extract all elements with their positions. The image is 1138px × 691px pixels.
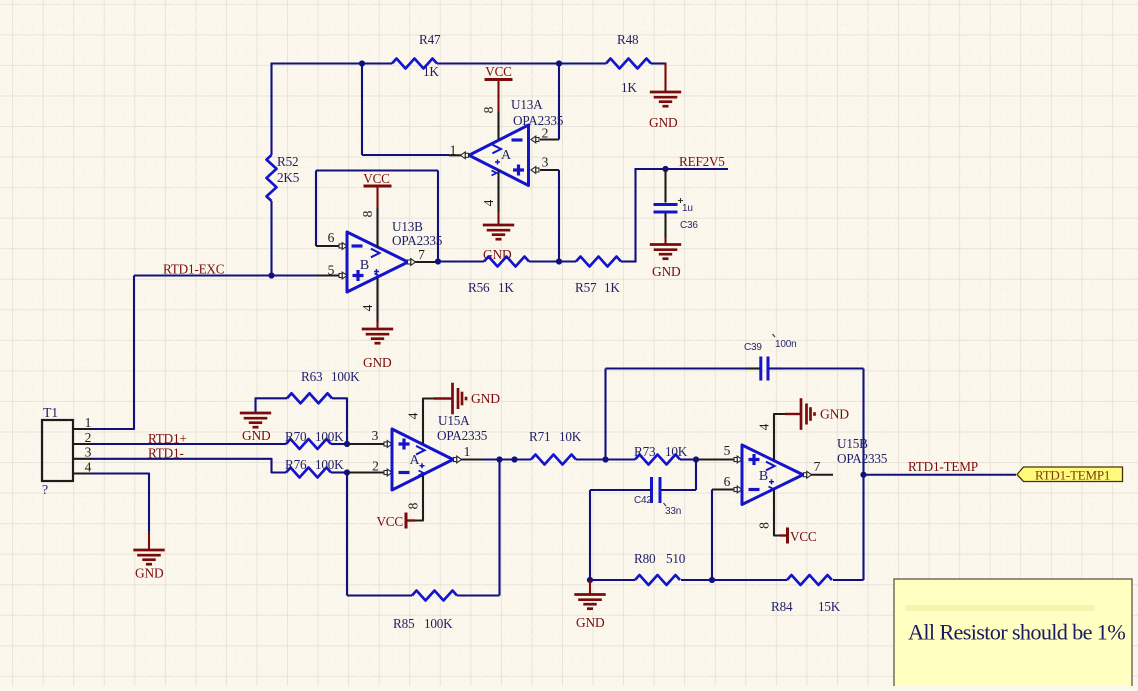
U13A inverting input pin 2	[540, 138, 559, 140]
wire U13B feedback left drop	[315, 171, 317, 247]
svg-text:4: 4	[360, 304, 375, 311]
svg-text:R71: R71	[529, 429, 550, 444]
svg-text:VCC: VCC	[485, 64, 512, 79]
wire C42 right riser	[695, 460, 697, 491]
svg-text:1K: 1K	[423, 64, 439, 79]
svg-text:3: 3	[85, 445, 92, 460]
wire R63 right to pin3 node	[332, 398, 347, 444]
U13B internal chevron	[371, 249, 380, 258]
svg-text:GND: GND	[363, 355, 392, 370]
wire R71 to C39 riser	[576, 458, 635, 460]
junction R76/R85 node	[344, 469, 350, 475]
U15B pin 4 to ground	[774, 414, 786, 460]
svg-text:2: 2	[85, 430, 92, 445]
U15A minus mark	[399, 471, 410, 474]
svg-text:1K: 1K	[621, 80, 637, 95]
wire C39 left riser	[604, 369, 606, 460]
wire R84 to right rail	[833, 579, 864, 581]
svg-text:15K: 15K	[818, 599, 841, 614]
junction C42/R80/ground	[587, 577, 593, 583]
U13A minus mark	[512, 138, 523, 141]
svg-text:33n: 33n	[665, 506, 681, 517]
U15B minus mark	[749, 488, 760, 491]
T1 pin 3	[73, 458, 91, 460]
U15B pin 6	[712, 488, 735, 490]
svg-text:GND: GND	[649, 115, 678, 130]
svg-text:B: B	[360, 258, 369, 273]
junction U13B output node	[435, 258, 441, 264]
svg-text:4: 4	[85, 460, 92, 475]
wire REF2V5 horizontal	[635, 168, 729, 170]
svg-text:A: A	[409, 453, 420, 468]
wire U13B feedback right drop	[437, 171, 439, 262]
ground GND mid-bottom	[574, 593, 605, 596]
wire to R80	[590, 579, 635, 581]
svg-text:All Resistor should be 1%: All Resistor should be 1%	[908, 620, 1125, 645]
svg-text:5: 5	[724, 443, 731, 458]
svg-text:VCC: VCC	[376, 514, 403, 529]
U15A pin 4 to ground	[423, 399, 435, 445]
U15B output pin 7	[803, 474, 833, 476]
ground GND below U13B	[362, 328, 393, 331]
svg-text:C36: C36	[680, 220, 698, 231]
U13A non-inverting input pin 3	[540, 169, 559, 171]
note box	[894, 579, 1132, 689]
U15A plus mark	[399, 439, 410, 450]
wire pin1 drop vertical	[361, 64, 363, 156]
power line GND above U15A	[434, 397, 453, 399]
junction output to right rail	[860, 472, 866, 478]
wire R56 to R57	[529, 260, 576, 262]
svg-text:OPA2335: OPA2335	[437, 428, 488, 443]
wire C42 right	[661, 489, 696, 491]
svg-text:R76: R76	[285, 457, 307, 472]
wire U13B feedback top	[316, 169, 438, 171]
power line for GND at R48	[664, 63, 666, 93]
svg-text:10K: 10K	[559, 429, 582, 444]
svg-text:1: 1	[85, 415, 92, 430]
ground GND below U13A	[483, 224, 514, 227]
wire right rail lower	[862, 475, 864, 581]
svg-text:RTD1-TEMP: RTD1-TEMP	[908, 459, 978, 474]
wire top rail left segment	[272, 62, 393, 64]
junction top-rail to pin2 drop	[556, 60, 562, 66]
capacitor C36	[654, 203, 678, 206]
svg-text:8: 8	[360, 210, 375, 217]
C36 polarity +	[678, 198, 683, 203]
svg-text:R84: R84	[771, 599, 793, 614]
wire left rail lower	[270, 201, 272, 276]
U13B internal small marks	[374, 269, 379, 274]
svg-text:4: 4	[757, 423, 772, 430]
power VCC below U15A (rotated)	[405, 513, 408, 529]
svg-text:T1: T1	[43, 405, 58, 420]
U13A internal chevron	[492, 145, 501, 154]
svg-text:OPA2335: OPA2335	[837, 451, 888, 466]
svg-text:GND: GND	[576, 615, 605, 630]
U13B minus mark	[352, 244, 363, 247]
wire REF vertical riser	[634, 169, 636, 263]
wire pin2 to top rail	[558, 64, 560, 140]
svg-text:R85: R85	[393, 616, 415, 631]
power line VCC below U15B	[780, 534, 788, 536]
svg-text:510: 510	[666, 551, 686, 566]
svg-text:U13B: U13B	[392, 219, 423, 234]
U13B pin 8	[376, 208, 378, 247]
svg-text:A: A	[501, 148, 512, 163]
wire R85 loop left drop	[346, 473, 348, 596]
port RTD1-TEMP1	[1017, 467, 1123, 482]
wire right rail upper	[862, 369, 864, 476]
resistor R48	[606, 59, 651, 69]
power line GND below U13B	[376, 322, 378, 329]
ground GND under T1	[133, 549, 164, 552]
wire U13B out to R56	[438, 260, 484, 262]
wire R48 to ground corner	[651, 62, 666, 64]
U15A pin 2	[347, 471, 385, 473]
wire divider to R84	[712, 579, 787, 581]
C36 pin lower	[664, 214, 666, 239]
wire RTD1-EXC horizontal	[134, 274, 317, 276]
op-amp U15A	[392, 429, 453, 490]
capacitor C39	[747, 367, 760, 369]
svg-text:100K: 100K	[315, 457, 344, 472]
T1 pin 1	[73, 428, 91, 430]
U15B pin 8 to VCC	[774, 490, 781, 536]
wire R63 left to ground	[256, 398, 288, 411]
resistor R47	[392, 59, 437, 69]
U13A plus mark	[513, 165, 524, 176]
svg-text:OPA2335: OPA2335	[513, 113, 564, 128]
resistor R70	[286, 439, 331, 449]
svg-text:U15A: U15A	[438, 413, 470, 428]
U13A pin 4	[497, 170, 499, 212]
svg-text:R57: R57	[575, 280, 597, 295]
ground GND above U15B (rotated)	[800, 398, 803, 430]
svg-text:8: 8	[757, 522, 772, 529]
svg-text:R48: R48	[617, 32, 639, 47]
resistor R85	[412, 591, 457, 601]
svg-text:1K: 1K	[604, 280, 620, 295]
resistor R73	[635, 455, 680, 465]
U13A internal small marks	[495, 160, 500, 165]
ground GND at R48	[650, 91, 681, 94]
U13B inverting input pin 6	[316, 245, 340, 247]
svg-text:1K: 1K	[498, 280, 514, 295]
C36 pin upper	[664, 169, 666, 203]
wire T1 pin1 to RTD1-EXC riser	[91, 276, 134, 430]
U15B internal chevron	[766, 462, 775, 471]
op-amp U15B	[742, 445, 803, 505]
U15A internal small plus	[420, 463, 425, 468]
wire C42 left drop	[589, 490, 591, 580]
svg-text:GND: GND	[820, 407, 849, 422]
svg-text:7: 7	[418, 247, 425, 262]
resistor R84	[787, 575, 832, 585]
junction R73/C42 node	[693, 456, 699, 462]
svg-text:U15B: U15B	[837, 436, 868, 451]
svg-text:R47: R47	[419, 32, 441, 47]
svg-text:1: 1	[450, 143, 457, 158]
resistor R63	[287, 393, 332, 403]
svg-text:REF2V5: REF2V5	[679, 154, 725, 169]
U15B plus mark	[749, 454, 760, 465]
resistor R76	[286, 468, 331, 478]
wire C42 left	[590, 489, 652, 491]
power line GND below U13A	[497, 212, 499, 225]
svg-text:RTD1-TEMP1: RTD1-TEMP1	[1035, 468, 1110, 483]
svg-text:10K: 10K	[665, 444, 688, 459]
junction divider node	[709, 577, 715, 583]
junction top-rail to pin1 drop	[359, 60, 365, 66]
U13B pin 4	[376, 278, 378, 322]
op-amp U13A	[469, 125, 529, 186]
wire R73 to pin5 node	[680, 458, 696, 460]
U15B pin 5	[696, 458, 735, 460]
wire to U13A output	[362, 154, 449, 156]
svg-text:2: 2	[372, 459, 379, 474]
svg-text:OPA2335: OPA2335	[392, 233, 443, 248]
svg-text:4: 4	[481, 199, 496, 206]
svg-text:3: 3	[372, 428, 379, 443]
wire T1 pin4 to ground	[91, 474, 149, 532]
svg-text:R80: R80	[634, 551, 656, 566]
wire top rail middle segment	[437, 62, 606, 64]
svg-text:100K: 100K	[424, 616, 453, 631]
svg-text:R52: R52	[277, 154, 298, 169]
resistor R80	[635, 575, 680, 585]
svg-text:6: 6	[724, 474, 731, 489]
op-amp U13B	[347, 232, 408, 292]
svg-text:R63: R63	[301, 369, 323, 384]
svg-text:8: 8	[406, 502, 421, 509]
wire C39 left horizontal	[606, 367, 761, 369]
capacitor C42	[650, 477, 653, 503]
svg-text:VCC: VCC	[363, 171, 390, 186]
svg-text:U13A: U13A	[511, 97, 543, 112]
svg-text:R73: R73	[634, 444, 656, 459]
wire R85 loop right riser	[498, 460, 500, 596]
T1 pin 4	[73, 472, 91, 474]
svg-text:1: 1	[464, 444, 471, 459]
wire R85 loop bottom right	[457, 594, 500, 596]
wire R80 to divider node	[681, 579, 712, 581]
power line GND above U15B	[785, 413, 801, 415]
svg-text:3: 3	[542, 155, 549, 170]
U15A pin 8 to VCC	[414, 476, 423, 521]
wire R70 to junction	[331, 443, 347, 445]
junction REF2V5 to C36	[662, 166, 668, 172]
wire U15A output node	[483, 458, 531, 460]
junction output segment	[511, 456, 517, 462]
junction C39 riser	[602, 456, 608, 462]
ground GND above U15A (rotated)	[451, 383, 454, 415]
power VCC below U15B (rotated)	[786, 528, 789, 544]
svg-text:C39: C39	[744, 342, 762, 353]
resistor R71	[531, 455, 576, 465]
wire C39 right horizontal	[769, 367, 864, 369]
svg-text:7: 7	[814, 459, 821, 474]
power line VCC below U15A	[406, 519, 415, 521]
junction R63/R70 node	[344, 441, 350, 447]
svg-text:100K: 100K	[315, 429, 344, 444]
resistor R52	[267, 155, 277, 201]
svg-text:2K5: 2K5	[277, 170, 300, 185]
svg-text:100K: 100K	[331, 369, 360, 384]
ground GND at R63	[240, 412, 271, 415]
svg-text:5: 5	[328, 263, 335, 278]
U13B output pin 7	[414, 261, 438, 263]
U13B plus mark	[353, 270, 364, 281]
U13A output pin 1	[449, 154, 462, 156]
wire R85 loop bottom left	[347, 594, 412, 596]
svg-text:GND: GND	[135, 566, 164, 581]
svg-text:?: ?	[42, 482, 48, 497]
ground GND below C36	[650, 243, 681, 246]
U15B internal small plus	[769, 479, 774, 484]
svg-text:1u: 1u	[682, 203, 693, 214]
resistor R56	[484, 257, 529, 267]
wire left rail upper	[270, 63, 272, 156]
svg-text:4: 4	[406, 412, 421, 419]
note ghost smear	[905, 605, 1095, 611]
U13A pin 8	[497, 112, 499, 140]
T1 pin 2	[73, 443, 91, 445]
wire RTD1-TEMP	[864, 474, 1017, 476]
U13B non-inverting input pin 5	[317, 274, 340, 276]
power line GND at R63	[254, 411, 256, 413]
svg-text:GND: GND	[471, 391, 500, 406]
power line GND mid-bottom	[589, 580, 591, 595]
U15A output pin 1	[453, 458, 483, 460]
svg-text:6: 6	[328, 230, 335, 245]
wire R57 to REF corner	[621, 260, 636, 262]
svg-text:R56: R56	[468, 280, 490, 295]
svg-text:R70: R70	[285, 429, 307, 444]
wire RTD1+ to R70	[91, 443, 286, 445]
junction R85 to output	[496, 456, 502, 462]
svg-text:RTD1-EXC: RTD1-EXC	[163, 262, 225, 277]
power line GND under T1	[148, 531, 150, 550]
resistor R57	[576, 257, 621, 267]
svg-text:GND: GND	[242, 428, 271, 443]
svg-text:C42: C42	[634, 495, 652, 506]
junction R52 to RTD1-EXC	[268, 272, 274, 278]
connector T1 body	[42, 420, 73, 481]
wire R76 to junction	[331, 471, 347, 473]
svg-text:8: 8	[481, 106, 496, 113]
power line GND below C36	[664, 238, 666, 245]
U15A internal chevron	[416, 446, 425, 455]
wire RTD1- to R76	[91, 459, 286, 473]
svg-text:100n: 100n	[775, 339, 796, 350]
wire pin3 down to R56/R57 node	[558, 170, 560, 262]
svg-text:B: B	[759, 469, 768, 484]
svg-text:GND: GND	[652, 264, 681, 279]
junction pin3 drop on R56/R57 row	[556, 258, 562, 264]
wire divider to pin6 riser	[711, 490, 713, 581]
svg-text:VCC: VCC	[790, 529, 817, 544]
U15A pin 3	[347, 443, 385, 445]
